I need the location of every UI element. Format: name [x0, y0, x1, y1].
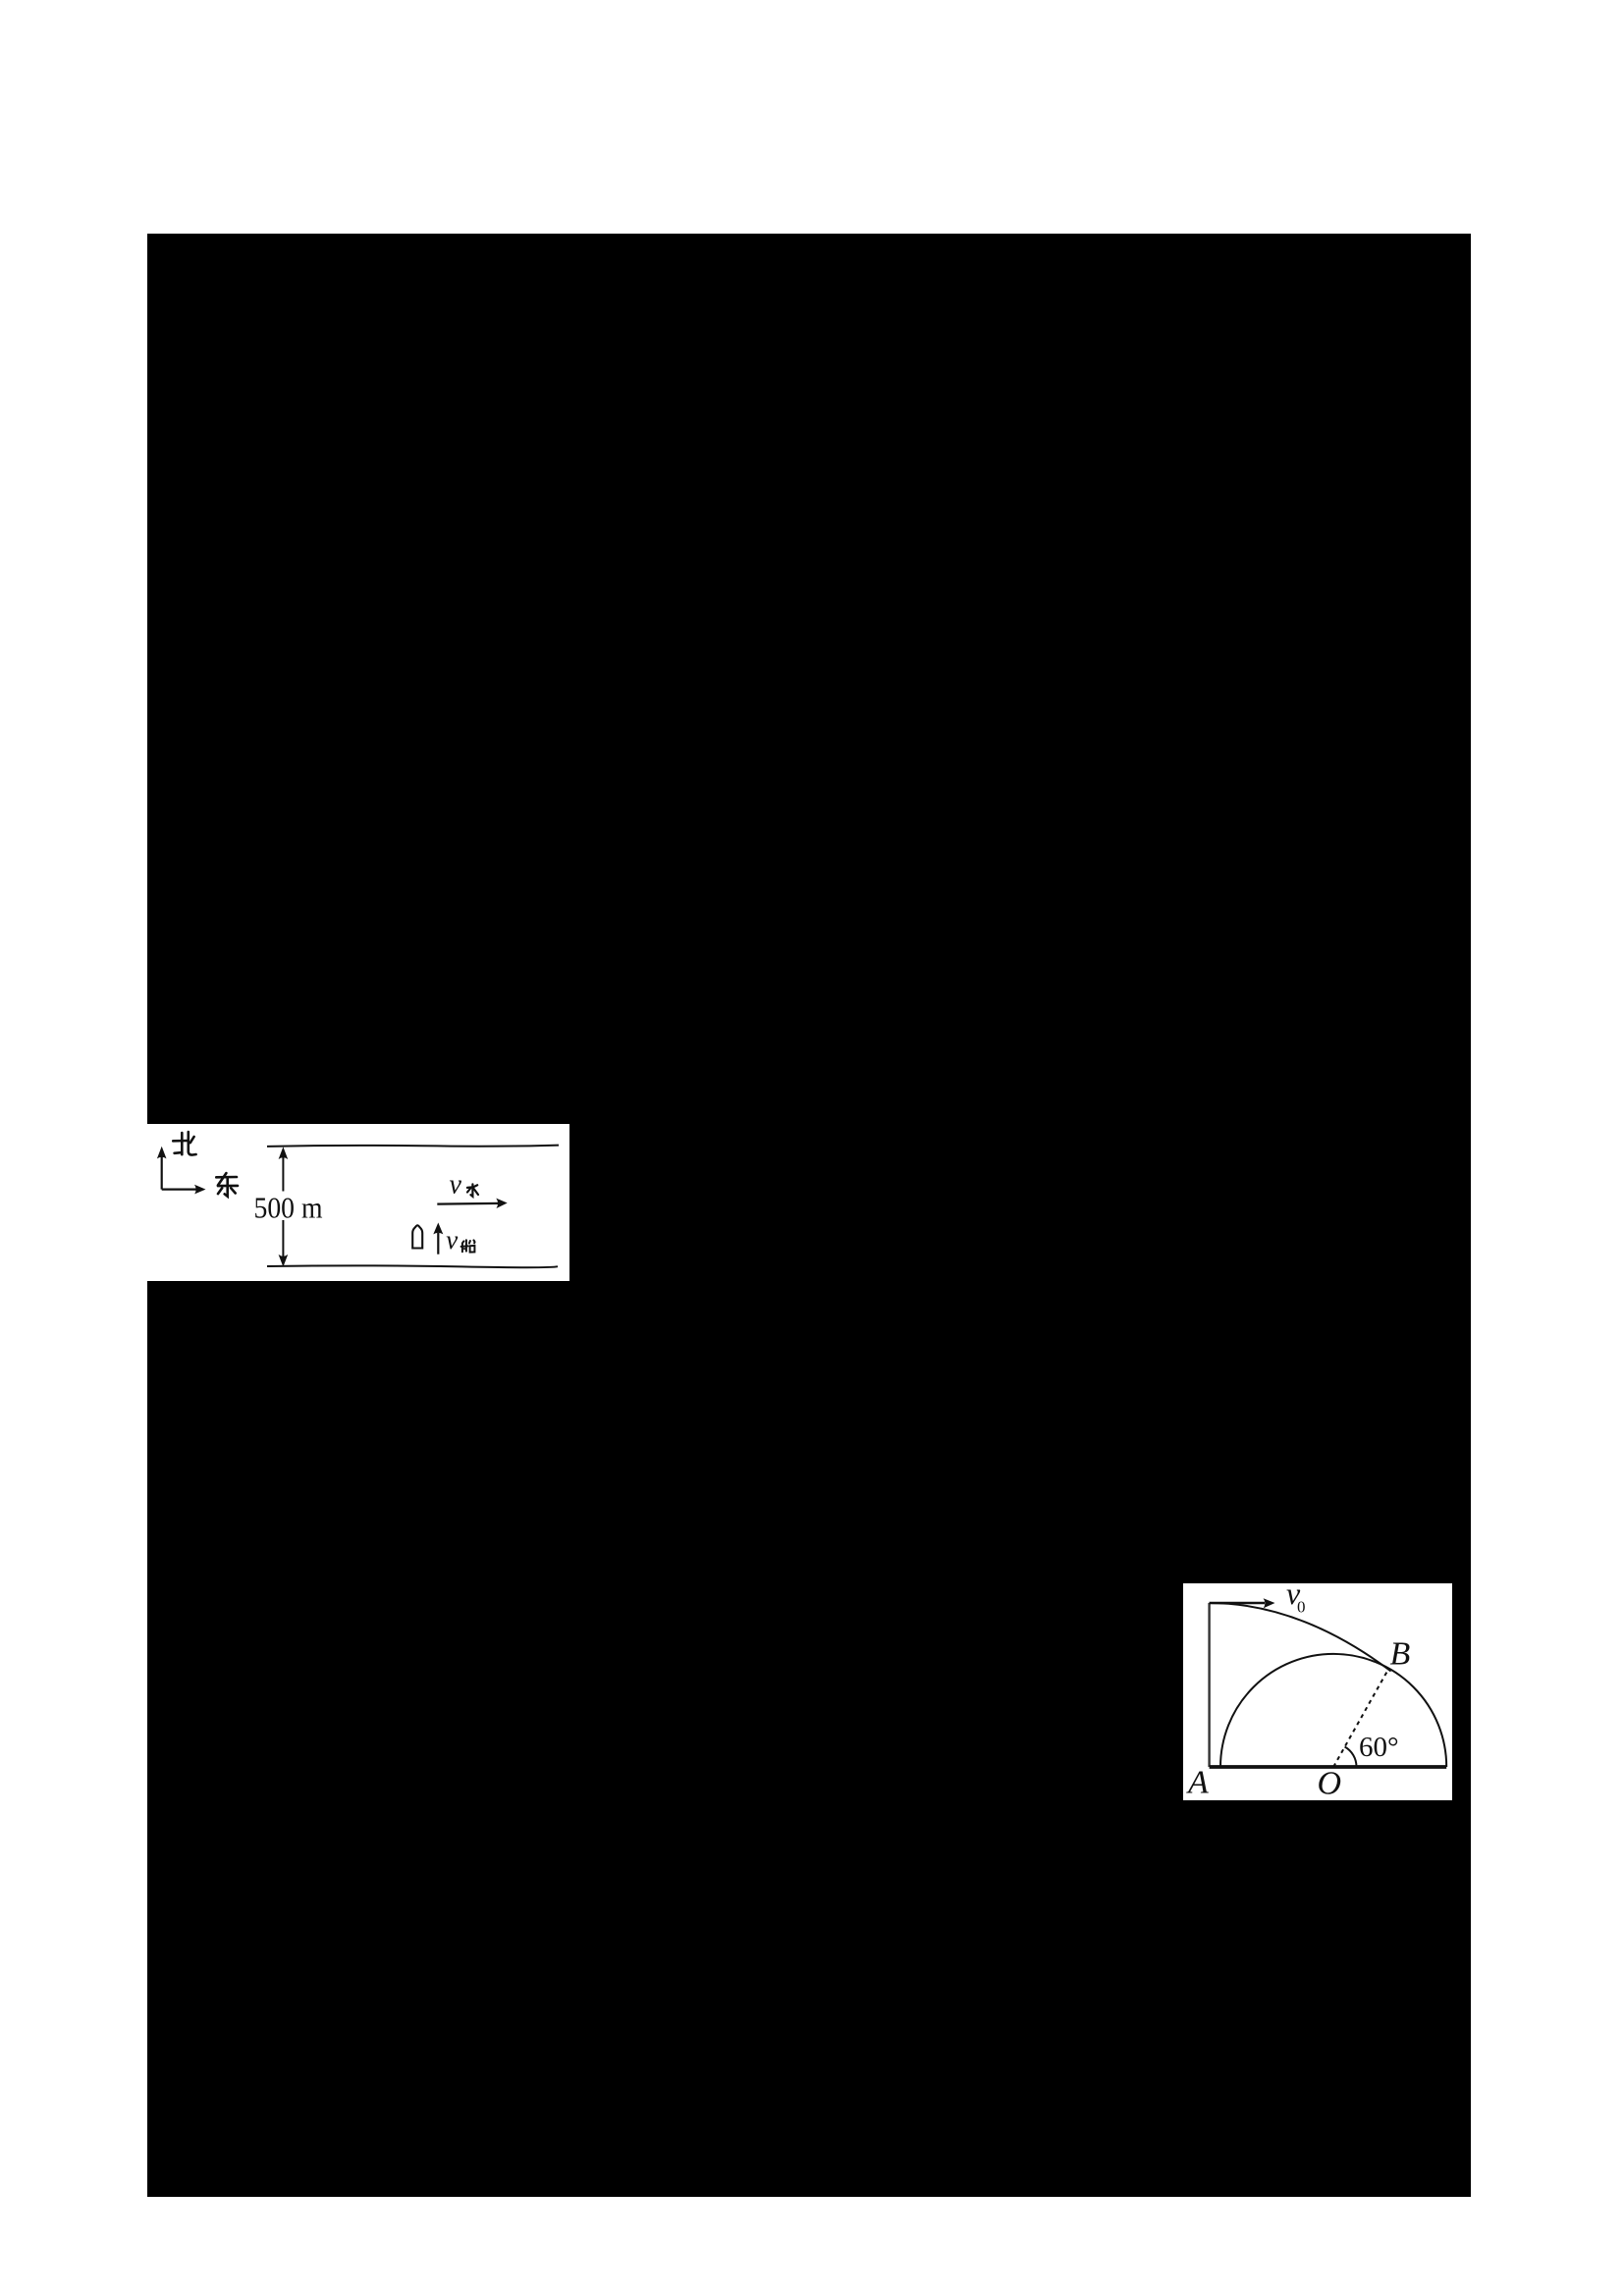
- ground baseline A to right: [1210, 1765, 1447, 1769]
- svg-text:500 m: 500 m: [254, 1191, 323, 1225]
- svg-text:v: v: [450, 1169, 462, 1200]
- figure 2: projectile onto dome diagram: [1183, 1583, 1452, 1800]
- svg-text:0: 0: [1297, 1597, 1306, 1616]
- wall vertical line: [1208, 1603, 1210, 1767]
- redaction block: [147, 234, 1471, 2197]
- svg-text:O: O: [1318, 1766, 1342, 1801]
- projectile trajectory parabola: [1210, 1603, 1391, 1672]
- figure 1: river crossing diagram: [147, 1124, 569, 1281]
- angle arc at O: [1345, 1747, 1357, 1768]
- river bottom bank line: [267, 1265, 558, 1267]
- compass north arrow: [157, 1147, 167, 1190]
- boat symbol (pentagon): [412, 1225, 422, 1248]
- svg-text:v: v: [446, 1225, 458, 1255]
- subscript 船 (boat): [461, 1240, 475, 1252]
- river width double arrow: [279, 1147, 289, 1266]
- water velocity arrow: [437, 1199, 507, 1208]
- subscript 水 (water): [467, 1184, 478, 1196]
- label 东 (East): [216, 1173, 238, 1197]
- label 北 (North): [173, 1132, 195, 1154]
- river top bank line: [267, 1146, 559, 1147]
- svg-text:60°: 60°: [1359, 1732, 1399, 1763]
- svg-text:B: B: [1390, 1636, 1411, 1673]
- initial velocity arrow: [1210, 1598, 1275, 1608]
- svg-text:A: A: [1186, 1764, 1209, 1800]
- dashed radius O to B: [1333, 1670, 1388, 1768]
- semicircular dome: [1220, 1654, 1446, 1767]
- boat velocity arrow: [433, 1223, 443, 1255]
- compass east arrow: [162, 1185, 206, 1195]
